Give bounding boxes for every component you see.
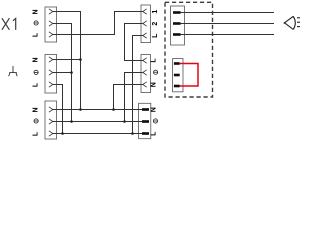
junction node PE row left bbox=[70, 120, 73, 123]
pin bar N (X2) bbox=[142, 108, 149, 111]
junction node N row right bbox=[112, 108, 115, 111]
pin contacts connector P1 bbox=[143, 9, 147, 38]
wire U1 pin1 right bbox=[181, 12, 274, 14]
pin bar 3 (U1) bbox=[173, 33, 181, 36]
pin label PE earth circle (X1c) bbox=[34, 119, 38, 123]
connector U2 inside dashed box (bottom) bbox=[173, 59, 184, 92]
wire N from X1a to N node column bbox=[53, 12, 81, 110]
pin bar 2 (U1) bbox=[173, 22, 181, 25]
wire N row X1c to X2 bbox=[53, 109, 142, 111]
wire PE from X1a to PE node column bbox=[53, 24, 72, 122]
svg-text:2: 2 bbox=[152, 22, 159, 26]
svg-text:L: L bbox=[33, 32, 40, 37]
pin label PE earth circle (P2) bbox=[154, 70, 158, 74]
svg-text:1: 1 bbox=[152, 10, 159, 14]
wire P2 pin N down to N row bbox=[114, 85, 143, 110]
svg-text:N: N bbox=[33, 107, 40, 112]
svg-text:N: N bbox=[150, 107, 157, 112]
pin bar 1 (U1) bbox=[173, 11, 181, 14]
pin bar PE (X2) bbox=[142, 120, 149, 123]
wire L from X1a to P1 pin 1 bbox=[53, 12, 143, 35]
wire PE from X1b to node bbox=[53, 72, 72, 74]
pin bar L (X2) bbox=[142, 132, 149, 135]
wire L row X1c to X2 bbox=[53, 133, 142, 135]
wire PE row X1c to X2 bbox=[53, 121, 142, 123]
pin contacts connector X1a bbox=[49, 9, 53, 37]
wires from U1 to right edge bbox=[181, 13, 274, 35]
continuation arrow symbol (cable to mains) bbox=[284, 16, 296, 29]
pin bar 2 (U2) bbox=[174, 74, 180, 77]
wire U1 pin2 right bbox=[181, 23, 274, 25]
pin contacts connector P2 bbox=[143, 58, 147, 87]
junction node PE/X1b bbox=[70, 71, 73, 74]
wire L from X1b down to L row bbox=[53, 85, 63, 134]
plug connector P2 (middle second, pins L PE N) bbox=[141, 55, 151, 93]
svg-text:N: N bbox=[33, 9, 40, 14]
wire P2 pin PE down to PE row bbox=[125, 73, 143, 122]
wire U1 pin3 right bbox=[181, 34, 274, 36]
junction node N row left bbox=[79, 108, 82, 111]
wires bbox=[53, 12, 143, 134]
red jumper wire between U2 pin1 and pin3 bbox=[180, 64, 198, 87]
junction node PE row right bbox=[123, 120, 126, 123]
pin bar 3 (U2) bbox=[174, 85, 180, 88]
wire P1 pin L down to L row bbox=[133, 36, 143, 134]
connector X2 (bottom-right, pins N PE L) bbox=[139, 103, 151, 138]
junction node N/X1b bbox=[79, 58, 82, 61]
pin label PE earth circle (X2) bbox=[153, 119, 157, 123]
svg-text:L: L bbox=[33, 82, 40, 87]
pin label PE earth circle (X1a) bbox=[34, 21, 38, 25]
svg-text:N: N bbox=[33, 57, 40, 62]
chassis ground symbol bbox=[9, 66, 18, 76]
wire N from X1b to node bbox=[53, 59, 81, 61]
pin contacts connector X1b bbox=[49, 57, 53, 87]
connector X1c (bottom-left, pins N PE L) bbox=[45, 101, 57, 139]
pin label PE earth circle (X1b) bbox=[34, 70, 38, 74]
dashed enclosure (appliance unit) bbox=[165, 2, 213, 97]
wire P1 pin 2 to P2 pin L bbox=[125, 24, 143, 61]
pin contacts connector X1c bbox=[49, 107, 53, 136]
plug connector P1 (middle top, pins 1 2 L) bbox=[141, 5, 151, 43]
svg-text:L: L bbox=[33, 131, 40, 136]
connector U1 inside dashed box (top) bbox=[171, 6, 185, 45]
connector X1b (mid-left, pins N PE L) bbox=[45, 55, 57, 94]
label X1 terminal designator bbox=[2, 18, 16, 30]
connector X1a (top-left, pins N PE L) bbox=[45, 7, 57, 42]
pin bar 1 (U2) bbox=[174, 62, 180, 65]
svg-text:L: L bbox=[150, 131, 157, 136]
cable continuation dashes at right edge bbox=[297, 18, 300, 27]
junction node L row left bbox=[61, 132, 64, 135]
svg-text:L: L bbox=[150, 58, 157, 63]
junction node L row right bbox=[131, 132, 134, 135]
svg-text:N: N bbox=[150, 82, 157, 87]
svg-text:L: L bbox=[152, 33, 159, 38]
